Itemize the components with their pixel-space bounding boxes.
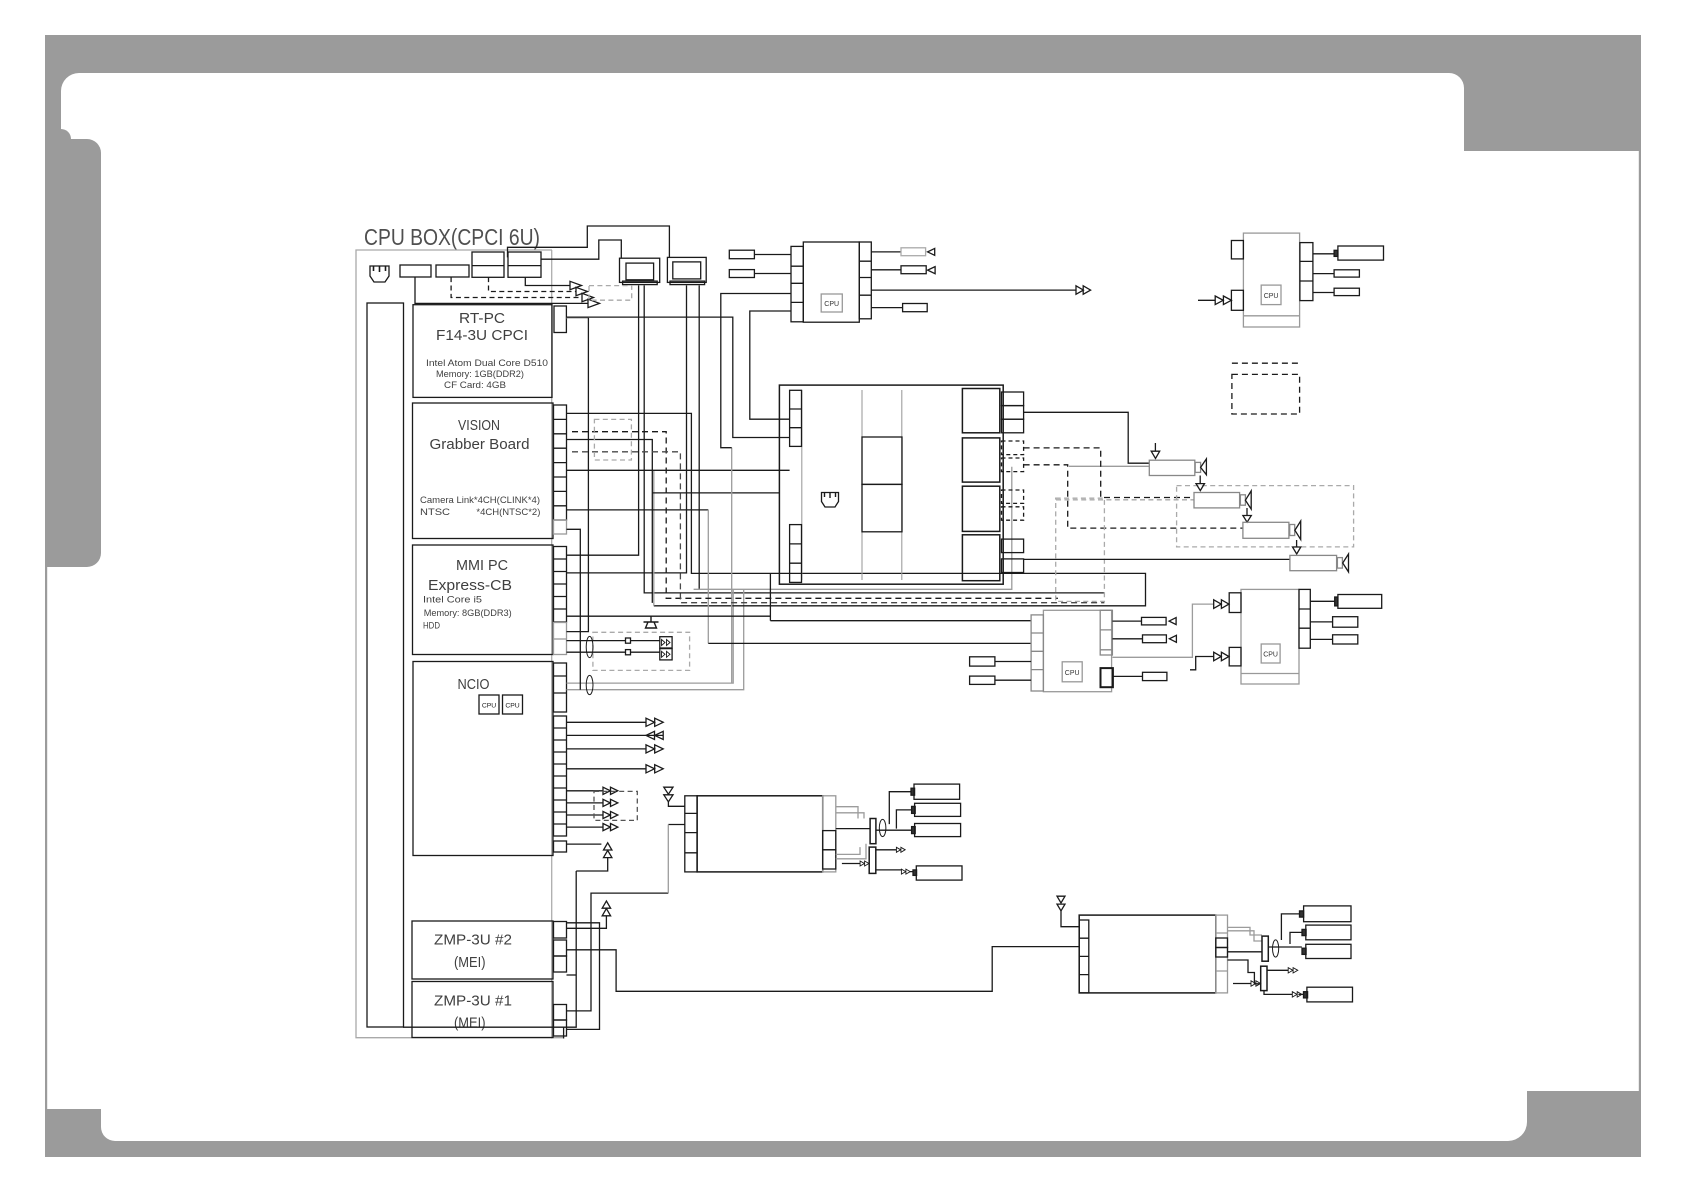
arrow t1: [570, 281, 582, 289]
svg-text:Memory: 1GB(DDR2): Memory: 1GB(DDR2): [436, 369, 524, 379]
U2 body: [1243, 233, 1299, 327]
ZMP#1 connector column: [554, 1005, 567, 1037]
wire riser to U3: [770, 620, 1031, 622]
wire slot4 to arrow t1: [525, 277, 570, 285]
junction block left connector column bottom: [790, 525, 802, 583]
M2 out port rect 4: [1304, 987, 1353, 1002]
slot connector 3 (double): [472, 252, 504, 277]
U3 radio arrows low pair: [1214, 652, 1229, 661]
ZMP2 to ZMP1 loop wire: [567, 923, 600, 1030]
wire MMI to junction riser: [567, 615, 771, 617]
U1 radio wire right: [871, 289, 1076, 291]
U3 right port rect 3: [1113, 672, 1167, 680]
wire VISION ch5: [567, 509, 709, 511]
junction block left connector column top: [790, 390, 802, 446]
M2 antenna: [1057, 896, 1079, 927]
frame fillet bottom-right inner: [1508, 1122, 1527, 1141]
wire slot4 to monitor2: [508, 226, 670, 257]
camera 1: [1149, 459, 1206, 476]
monitor1 cable pair: [567, 285, 1105, 593]
dashed wire slot2 to arrow t3: [451, 277, 582, 297]
U1 wire down long: [721, 294, 791, 448]
ZMP1 to M1 wire: [567, 893, 669, 1011]
junction block right bay 3: [962, 486, 999, 531]
service wire 2 with inline connector: [567, 650, 660, 655]
frame bottom band: [45, 1141, 1641, 1157]
U1 wire left-down to center block: [750, 311, 791, 419]
U4 right connector column: [1299, 589, 1310, 648]
M1 left wire gray down: [667, 825, 669, 894]
wire slot4 to monitor1: [541, 240, 621, 259]
svg-text:MMI PC: MMI PC: [456, 557, 508, 574]
M2 tiny radio arrows 3: [1292, 992, 1302, 997]
NCIO connector column: [554, 663, 567, 852]
NCIO short radio s3: [567, 811, 618, 818]
camera 2 drop arrow: [1196, 476, 1205, 491]
M1 right gray column: [823, 796, 836, 872]
U4 left connector 1: [1229, 593, 1241, 613]
U3 right connector column: [1100, 610, 1112, 655]
M2 ferrite bar 1: [1262, 936, 1268, 961]
M1 out port rect 1: [911, 784, 960, 799]
frame right thin line: [1639, 151, 1641, 1091]
wire bus to U3 lower: [708, 642, 1031, 644]
M2 out port rect 3: [1302, 944, 1351, 958]
board ZMP-3U #2 (MEI): [412, 921, 553, 979]
frame left column: [45, 35, 61, 567]
MMI connector column: [554, 547, 567, 655]
NCIO short radio s4: [567, 824, 618, 831]
M2 coil ellipse: [1273, 940, 1279, 957]
M1 out port rect 3: [912, 824, 961, 837]
M1 out port rect 4: [913, 866, 962, 880]
NCIO radio wire a3: [567, 745, 664, 753]
junction block gray internal dividers: [802, 390, 902, 580]
bay1 wire to camera1: [1024, 412, 1150, 463]
gray pair wires to risers: [567, 589, 744, 689]
VISION connector column: [554, 405, 567, 534]
coil ellipse 1: [586, 636, 593, 657]
gray dashed wire to camera2: [1056, 499, 1194, 501]
junction block power inlet icon: [822, 493, 839, 508]
U3 radio arrows up pair: [1214, 600, 1229, 609]
NCIO radio wire a4: [567, 765, 664, 773]
U4 left connector 2: [1229, 647, 1241, 666]
junction block body: [779, 385, 1003, 584]
dashed standby box: [1232, 374, 1300, 414]
U1 left connector column: [791, 246, 803, 321]
U1 right gray port rect with arrow: [871, 248, 934, 256]
U3 right port rect 2 with arrow: [1112, 635, 1176, 643]
M2 out port rect 2: [1302, 925, 1351, 940]
CPU BOX enclosure right edge: [551, 250, 553, 1039]
svg-text:Intel Core i5: Intel Core i5: [423, 595, 482, 605]
arrow t4: [588, 299, 600, 307]
ground symbol: [644, 616, 659, 628]
monitor 2: [667, 257, 706, 284]
M1 body: [697, 796, 823, 872]
M2 lower wiring: [1228, 960, 1304, 994]
M1 ferrite bar 1: [870, 819, 876, 844]
svg-text:CPU: CPU: [1263, 652, 1278, 659]
M1 coil ellipse: [879, 819, 886, 836]
slot connector 1: [400, 265, 431, 277]
U2 right port rect 3: [1313, 288, 1360, 295]
NCIO CPU chip 2: [503, 695, 523, 714]
slot connector 2: [436, 265, 469, 277]
gray dashed box near arrows: [589, 286, 632, 301]
U4 right port rect 2: [1310, 617, 1357, 628]
M2 output bundle black: [1228, 914, 1306, 952]
frame bottom-left block: [45, 1109, 101, 1157]
backplane board: [367, 303, 404, 1027]
U3 gray radio wire to U4: [1112, 604, 1213, 657]
frame fillet bottom-left inner: [101, 1127, 115, 1141]
bay2 dashed stubs: [1002, 441, 1024, 472]
bay1 stub connectors: [1002, 392, 1024, 433]
M2 body: [1079, 915, 1216, 993]
gray dashed service box MMI: [593, 632, 690, 670]
svg-text:(MEI): (MEI): [454, 1015, 486, 1032]
svg-text:Grabber Board: Grabber Board: [430, 436, 530, 453]
U2 left connector 2: [1231, 290, 1243, 310]
wire RT-PC riser to MMI: [567, 318, 589, 632]
dashed gray bus B: [572, 452, 1104, 603]
bay2 dashed wire to camera2: [1024, 448, 1194, 498]
NCIO short radio s1: [567, 787, 618, 794]
board RT-PC F14-3U CPCI: [413, 305, 552, 398]
camera 3: [1243, 521, 1301, 540]
wire RT-PC to center block: [566, 317, 789, 437]
U1 right port rect 3: [871, 304, 927, 312]
M1 ferrite bar 2: [869, 847, 876, 873]
svg-text:HDD: HDD: [423, 621, 440, 631]
svg-text:CPU: CPU: [824, 301, 839, 308]
RT-PC right connector: [554, 306, 566, 333]
dashed wire slot3 to arrow t2: [489, 277, 577, 291]
M1 output bundle gray: [836, 807, 866, 859]
frame fillet top-right inner: [1449, 73, 1464, 88]
dashed line above dashed box: [1232, 362, 1300, 364]
svg-text:CPU: CPU: [505, 703, 519, 710]
U4 right port long rect: [1310, 595, 1381, 609]
wire VISION ch3: [567, 469, 790, 471]
svg-text:Memory: 8GB(DDR3): Memory: 8GB(DDR3): [424, 608, 512, 618]
service wire 1 with inline connector: [567, 638, 660, 643]
M2 left connector column: [1079, 920, 1089, 993]
ZMP wire junction long to right block: [567, 947, 1080, 992]
NCIO CPU chip 1: [479, 695, 499, 714]
U2 CPU label box: [1261, 285, 1281, 305]
U3 body: [1043, 610, 1111, 691]
frame bottom-right block: [1527, 1091, 1641, 1157]
U4 body: [1241, 589, 1299, 684]
U1 right port rect 2 with arrow: [871, 266, 935, 274]
svg-text:Intel Atom Dual Core D510: Intel Atom Dual Core D510: [426, 358, 548, 368]
bay3 dashed stubs: [1002, 490, 1024, 520]
dashed black bus A: [572, 432, 1058, 599]
board MMI PC Express-CB: [413, 545, 554, 655]
U2 right port rect 2: [1313, 270, 1360, 277]
svg-text:(MEI): (MEI): [454, 954, 486, 971]
U1 left port rect 2: [729, 270, 791, 278]
wire drop to box bottom: [563, 1027, 565, 1038]
gray dashed camera zone box: [1177, 486, 1354, 547]
NCIO bottom stub: [567, 843, 602, 845]
NCIO radio wire a2 left arrows: [567, 731, 664, 739]
NCIO radio wire a1: [567, 718, 664, 726]
M1 output bundle black: [836, 792, 915, 831]
svg-text:Camera Link*4CH(CLINK*4): Camera Link*4CH(CLINK*4): [420, 495, 540, 505]
CPU BOX enclosure outline: [356, 250, 564, 1038]
svg-text:NTSC: NTSC: [420, 507, 450, 517]
bay4 wire to camera4: [1024, 558, 1290, 560]
M2 tiny radio arrows 1: [1288, 968, 1298, 973]
M2 output bundle gray: [1228, 927, 1263, 941]
up arrows near NCIO: [576, 843, 612, 871]
svg-text:*4CH(NTSC*2): *4CH(NTSC*2): [476, 507, 540, 517]
gray dashed return box: [1056, 498, 1105, 601]
power inlet icon top-left: [370, 266, 389, 282]
NCIO short radio s2: [567, 799, 618, 806]
wire VISION ch1 long S-wire: [567, 413, 1146, 605]
board NCIO: [413, 662, 553, 856]
wire VISION bottom connector down: [567, 529, 581, 689]
svg-text:RT-PC: RT-PC: [459, 310, 505, 327]
U3 left port rect 2: [970, 676, 1032, 684]
camera 4: [1290, 554, 1349, 572]
gray dashed box upper: [594, 419, 631, 460]
ZMP2 short stub: [567, 974, 577, 976]
U4 right port rect 3: [1310, 635, 1357, 644]
board VISION Grabber Board: [413, 403, 554, 539]
gray wire to camera1: [1069, 465, 1149, 467]
wire VISION ch4: [652, 492, 779, 494]
gray riser 2: [731, 448, 733, 683]
M1 left wire black: [668, 824, 685, 826]
svg-text:Express-CB: Express-CB: [428, 577, 512, 594]
M1 tiny radio arrows 1: [896, 847, 905, 852]
gray stub RT-PC: [566, 317, 588, 319]
U1 right connector column: [859, 242, 871, 319]
frame top-right block: [1464, 35, 1641, 151]
monitor 1: [620, 258, 660, 284]
svg-text:NCIO: NCIO: [458, 676, 490, 693]
slot connector 4 (double): [508, 252, 541, 277]
coil ellipse 2: [586, 675, 593, 694]
monitor2 cable pair: [567, 285, 700, 589]
M2 out port rect 1: [1300, 906, 1352, 922]
frame fillet below top band left: [61, 73, 79, 91]
U3 left connector column: [1031, 615, 1043, 691]
U4 CPU label box: [1261, 644, 1280, 663]
svg-text:CF Card: 4GB: CF Card: 4GB: [444, 380, 506, 390]
U1 CPU label box: [821, 294, 842, 312]
frame top band: [45, 35, 1641, 73]
U1 radio arrows: [1076, 286, 1091, 295]
svg-text:F14-3U CPCI: F14-3U CPCI: [436, 327, 528, 344]
svg-text:ZMP-3U #2: ZMP-3U #2: [434, 932, 512, 949]
M2 tiny radio arrows 2: [1251, 981, 1261, 986]
camera 2: [1194, 491, 1251, 509]
svg-text:CPU: CPU: [482, 703, 496, 710]
U3 left port rect 1: [970, 657, 1032, 666]
frame fillet above tab: [61, 129, 71, 139]
up arrows near ZMP2: [567, 901, 611, 928]
arrow t3: [582, 293, 594, 301]
gray riser of bus: [653, 471, 655, 606]
wire slot1 to arrow t4: [415, 277, 588, 303]
svg-text:CPU BOX(CPCI 6U): CPU BOX(CPCI 6U): [364, 224, 540, 250]
gray bus under center block: [694, 467, 1012, 590]
junction block inner module upper: [862, 437, 902, 484]
junction block right bay 2: [962, 438, 999, 482]
M1 antenna: [664, 787, 685, 806]
junction block right bay 4: [962, 535, 999, 581]
U2 left connector 1: [1231, 241, 1243, 259]
U1 left port rect 1: [729, 250, 791, 259]
M1 lower wiring: [842, 850, 913, 872]
wire VISION ch2: [567, 440, 653, 603]
svg-text:CPU: CPU: [1065, 670, 1080, 677]
U2 right connector column: [1300, 243, 1313, 301]
camera 1 drop arrow: [1151, 443, 1160, 459]
M2 right black connectors: [1216, 938, 1228, 957]
U3 right black connector: [1101, 668, 1113, 687]
frame left tab: [45, 139, 101, 567]
U3 hook wire: [1190, 657, 1214, 670]
link connector box pair: [660, 637, 672, 660]
wire backplane bottom to antenna stem: [403, 871, 576, 1027]
M1 right black connectors: [823, 831, 836, 869]
svg-text:VISION: VISION: [458, 417, 500, 434]
camera 3 drop arrow: [1243, 508, 1251, 522]
arrow t2: [576, 287, 588, 295]
board ZMP-3U #1 (MEI): [412, 982, 553, 1038]
wire junction riser: [769, 573, 771, 620]
M1 tiny radio arrows 3: [901, 869, 910, 874]
M1 left connector column: [685, 796, 697, 872]
M1 out port rect 2: [912, 803, 961, 816]
svg-text:ZMP-3U #1: ZMP-3U #1: [434, 993, 512, 1010]
U2 radio in arrows: [1198, 296, 1231, 305]
ZMP#2 connector column: [554, 922, 567, 973]
bay2 dashed wire to camera3: [1024, 465, 1243, 528]
M1 tiny radio arrows 2: [860, 861, 869, 866]
bay4 stub connectors: [1002, 539, 1024, 572]
frame left thin line: [45, 567, 47, 1109]
M2 ferrite bar 2: [1261, 966, 1267, 990]
junction block inner module lower: [862, 484, 902, 531]
U1 body: [803, 242, 859, 322]
gray riser ch5: [707, 510, 709, 644]
camera 4 drop arrow: [1293, 540, 1301, 554]
dashed box around short radios: [594, 791, 637, 820]
junction block right bay 1: [962, 389, 999, 433]
U2 right port long rect: [1313, 246, 1384, 260]
U3 right port rect 1 with arrow: [1112, 617, 1176, 625]
U3 CPU label box: [1062, 662, 1082, 682]
svg-text:CPU: CPU: [1264, 293, 1279, 300]
M2 right gray column: [1216, 915, 1228, 993]
